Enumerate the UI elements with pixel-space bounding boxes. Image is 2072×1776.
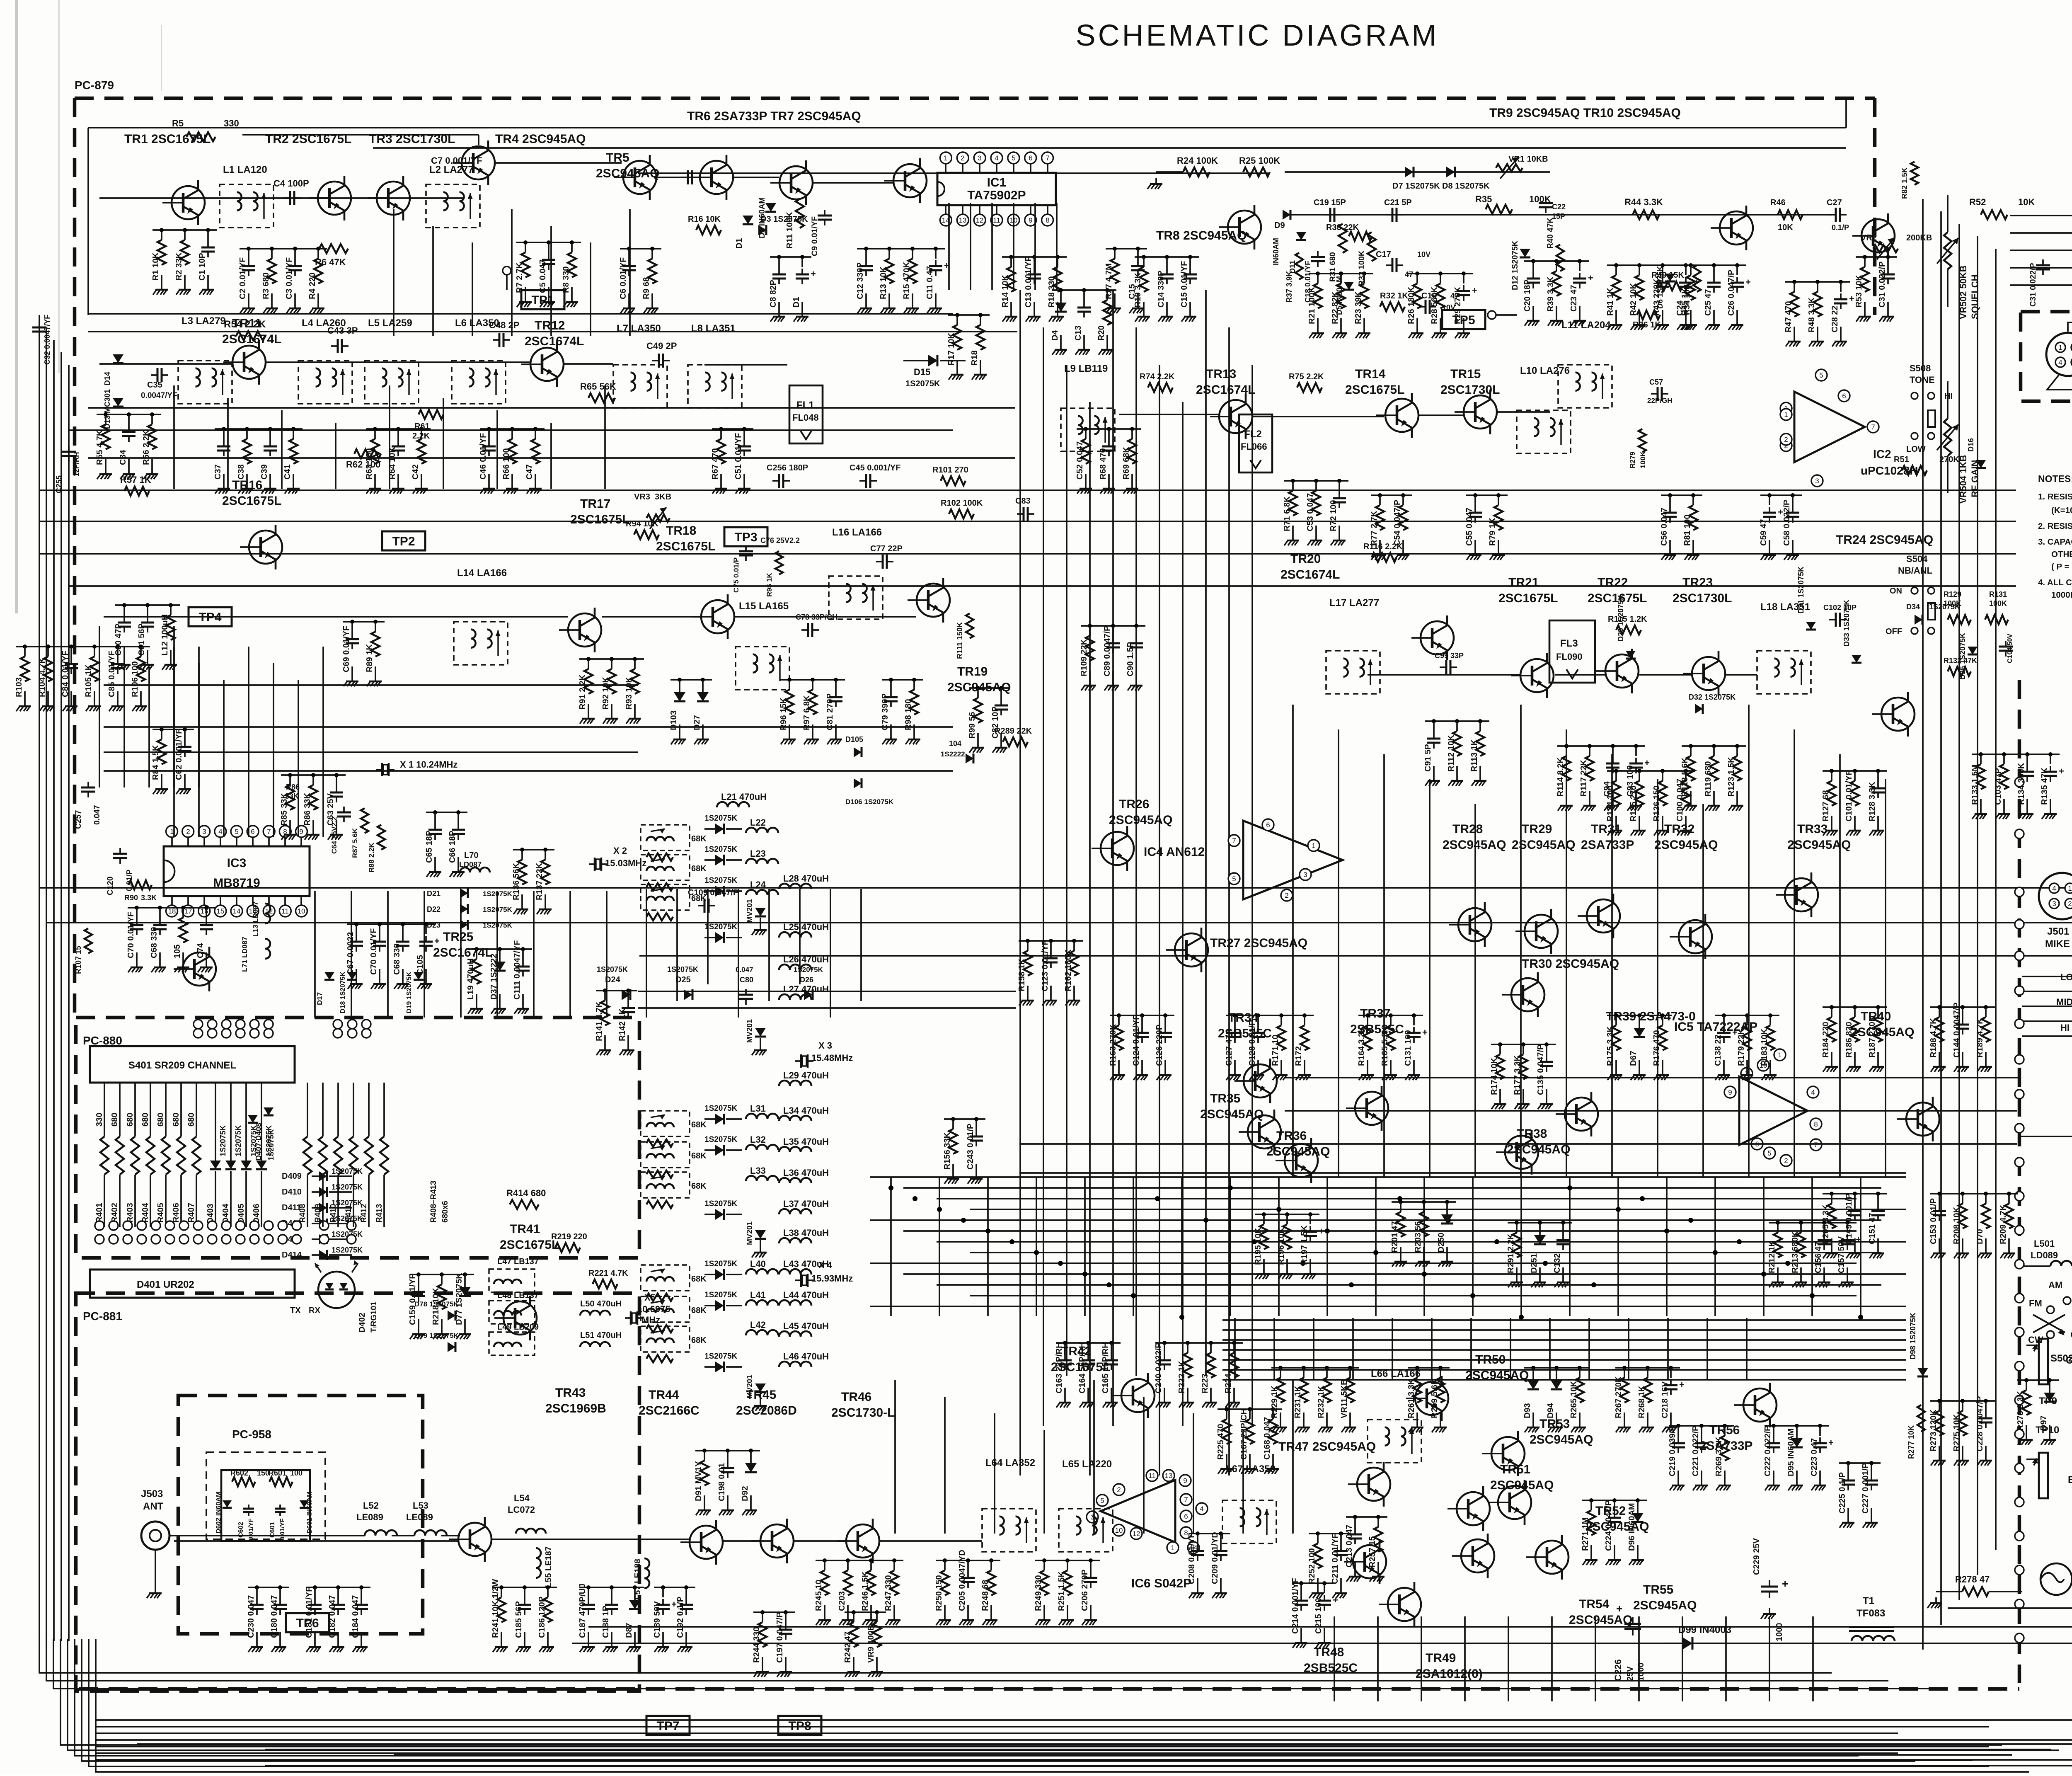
svg-text:+: + — [434, 936, 440, 946]
bias cluster R244 — [752, 1610, 795, 1677]
inductor L23 — [746, 848, 778, 864]
transistor TR42 — [1051, 1345, 1155, 1418]
svg-text:4: 4 — [218, 828, 222, 836]
bias cluster R26 — [1407, 271, 1477, 338]
svg-text:R414 680: R414 680 — [506, 1188, 546, 1198]
diode D4x-D6x IS2075K at y2775 — [704, 1135, 742, 1156]
svg-text:C74: C74 — [196, 943, 205, 958]
svg-text:TR26: TR26 — [1119, 797, 1149, 811]
svg-text:2SC1674L: 2SC1674L — [525, 334, 584, 348]
bias cluster R163 — [1109, 1013, 1174, 1080]
svg-text:L3 LA279: L3 LA279 — [182, 315, 226, 327]
svg-text:TR6 2SA733P TR7 2SC945AQ: TR6 2SA733P TR7 2SC945AQ — [687, 109, 861, 123]
channel resistor ladder R408-R413 — [298, 1083, 388, 1227]
svg-text:L46 470uH: L46 470uH — [783, 1351, 829, 1362]
svg-text:680: 680 — [110, 1113, 119, 1127]
svg-text:1S2075K: 1S2075K — [234, 1125, 242, 1156]
svg-text:L501: L501 — [2034, 1238, 2055, 1249]
svg-text:L41: L41 — [750, 1290, 766, 1300]
capacitor C7 0.001/YF — [431, 155, 699, 184]
coil L11 LA204 — [1558, 320, 1612, 408]
svg-text:D14: D14 — [103, 372, 111, 385]
svg-text:4: 4 — [2052, 884, 2056, 892]
svg-text:C27: C27 — [1827, 198, 1842, 207]
svg-text:TR43: TR43 — [555, 1386, 586, 1400]
svg-text:C17: C17 — [1376, 250, 1391, 259]
bias cluster R85 — [280, 773, 346, 840]
svg-text:R278 47: R278 47 — [1955, 1574, 1990, 1585]
svg-text:+: + — [1616, 1602, 1622, 1615]
svg-text:R42 10K: R42 10K — [1629, 283, 1638, 316]
svg-text:C189 50V: C189 50V — [653, 1601, 662, 1638]
control feed wires — [2022, 966, 2072, 1036]
C32 0.0047/YF — [32, 315, 51, 365]
svg-text:D9: D9 — [1274, 221, 1285, 230]
svg-text:R137 22K: R137 22K — [535, 863, 544, 900]
svg-text:TR49: TR49 — [1426, 1651, 1456, 1665]
VR3 3KB pot — [634, 492, 671, 529]
svg-text:C18 0.01/YF: C18 0.01/YF — [1304, 261, 1312, 303]
svg-text:C228 0.0047/P: C228 0.0047/P — [1975, 1396, 1985, 1451]
diode D9 D11 — [1272, 210, 1306, 274]
svg-text:R252 100: R252 100 — [1307, 1548, 1317, 1584]
transistor TR29 — [1512, 822, 1575, 954]
svg-text:1S2075K: 1S2075K — [704, 1104, 738, 1113]
svg-text:C180 0.047: C180 0.047 — [270, 1595, 279, 1638]
inductor L31 — [746, 1103, 778, 1119]
svg-text:5: 5 — [235, 828, 238, 836]
coil L41 LB209 slug box — [641, 1296, 707, 1322]
svg-text:SQUELCH: SQUELCH — [1970, 274, 1980, 319]
svg-text:C229 25V: C229 25V — [1752, 1538, 1761, 1575]
bias cluster R133 — [1970, 752, 2064, 819]
svg-text:D5 IN60AM: D5 IN60AM — [1335, 276, 1343, 315]
svg-text:R245 10: R245 10 — [814, 1580, 823, 1611]
svg-text:C226: C226 — [1613, 1659, 1623, 1681]
svg-text:D94: D94 — [1546, 1403, 1555, 1418]
mike connector J501 — [2039, 873, 2072, 950]
R289 22K — [995, 727, 1032, 746]
mid band rails — [1019, 1078, 2018, 1173]
svg-text:C188 1P: C188 1P — [601, 1606, 610, 1638]
svg-text:L23: L23 — [750, 848, 766, 859]
C76 C75 parts — [732, 536, 800, 597]
svg-text:R15 470K: R15 470K — [902, 262, 911, 299]
transistor TR17 — [559, 497, 629, 652]
R408x6 label — [429, 1181, 450, 1223]
R82 1.5K — [1900, 162, 1918, 199]
svg-text:L40: L40 — [750, 1259, 766, 1269]
svg-text:R3 680: R3 680 — [261, 273, 271, 300]
op-amp IC5 TA7222AP — [1674, 1020, 1822, 1166]
transistor TR35 — [1200, 1092, 1281, 1154]
svg-text:R2 33K: R2 33K — [174, 252, 184, 281]
svg-text:2SC945AQ: 2SC945AQ — [1569, 1613, 1632, 1627]
svg-text:L37 470uH: L37 470uH — [783, 1199, 829, 1209]
transistor TR36 — [1266, 1129, 1330, 1183]
microphone assembly dashed box — [2021, 312, 2072, 401]
diode D6 R36 — [1633, 266, 1675, 330]
capacitor C17 47 10V — [1376, 250, 1431, 279]
svg-text:3: 3 — [202, 828, 206, 836]
bias cluster C214 — [1291, 1578, 1338, 1648]
svg-text:R71 6.8K: R71 6.8K — [1283, 496, 1292, 531]
svg-text:C126 220P: C126 220P — [1155, 1025, 1164, 1066]
PC-880 bottom edge connector pads — [95, 1221, 356, 1244]
coil L4 LA260 — [298, 317, 352, 404]
mode switch S502-1 — [2028, 1280, 2072, 1364]
svg-text:+: + — [1745, 277, 1751, 287]
svg-text:R222 1K: R222 1K — [1177, 1361, 1186, 1393]
svg-text:D15: D15 — [914, 367, 930, 377]
svg-text:C81 270P: C81 270P — [825, 693, 835, 730]
svg-text:11: 11 — [281, 907, 289, 915]
svg-text:TR18: TR18 — [666, 524, 696, 538]
svg-text:C144 0.0047/P: C144 0.0047/P — [1952, 1003, 1961, 1058]
svg-text:R134 390K: R134 390K — [2017, 763, 2026, 805]
bias cluster R17 — [947, 313, 990, 380]
cross page horizontal bus y2305 — [639, 955, 2072, 957]
svg-text:D13 MC301: D13 MC301 — [103, 389, 111, 429]
svg-text:R158 1K: R158 1K — [1017, 959, 1026, 991]
svg-text:R55 4.7K: R55 4.7K — [95, 430, 104, 465]
svg-text:2SC945AQ: 2SC945AQ — [1530, 1433, 1593, 1446]
svg-text:R18 330: R18 330 — [1047, 276, 1056, 308]
svg-text:L8 LA351: L8 LA351 — [691, 323, 736, 334]
C120 0.01/P — [106, 848, 157, 902]
svg-text:7: 7 — [1232, 837, 1236, 845]
bias cluster R252 — [1307, 1531, 1350, 1598]
svg-text:S502 — 1: S502 — 1 — [2050, 1353, 2072, 1364]
inductor L33 — [746, 1165, 778, 1181]
svg-text:NOTES:: NOTES: — [2038, 473, 2072, 484]
svg-text:PC-881: PC-881 — [83, 1310, 122, 1323]
svg-text:TR55: TR55 — [1643, 1583, 1673, 1597]
svg-text:C222 0.022/P: C222 0.022/P — [1763, 1426, 1772, 1476]
svg-text:R135 47K: R135 47K — [2040, 767, 2049, 805]
diode matrix D401 UR202 — [90, 1270, 295, 1298]
svg-text:C224 0.047/P: C224 0.047/P — [1604, 1500, 1613, 1551]
svg-text:15: 15 — [217, 907, 225, 915]
R102 100K — [941, 499, 983, 519]
bias cluster C37 — [213, 427, 303, 494]
wire TX row signal path — [174, 1539, 982, 1541]
svg-text:TR41: TR41 — [510, 1222, 540, 1236]
svg-text:D97: D97 — [2039, 1415, 2048, 1431]
svg-text:R224: R224 — [1224, 1373, 1233, 1393]
PC-958 inner dashed box — [206, 1452, 325, 1539]
bias cluster R249 — [1034, 1558, 1100, 1625]
svg-text:R47 470: R47 470 — [1784, 301, 1793, 332]
svg-text:FL066: FL066 — [1241, 441, 1267, 452]
op-amp IC1 TA75902P — [937, 152, 1056, 226]
svg-text:1: 1 — [944, 154, 947, 162]
svg-text:13: 13 — [959, 216, 967, 224]
svg-text:R249 330: R249 330 — [1034, 1575, 1043, 1611]
coil L65 LA220 — [1059, 1459, 1113, 1552]
svg-text:OTHERWISE NOTED.: OTHERWISE NOTED. — [2051, 550, 2072, 559]
svg-text:C184 0.047: C184 0.047 — [351, 1595, 360, 1638]
svg-text:6: 6 — [1184, 1512, 1188, 1520]
svg-text:C28 22: C28 22 — [1830, 306, 1840, 333]
channel diode column D403-D406 — [206, 1083, 273, 1227]
svg-text:TR25: TR25 — [443, 930, 473, 944]
svg-text:EXT SP: EXT SP — [2068, 1474, 2072, 1485]
bias cluster R261 — [1407, 1366, 1450, 1432]
R279 100K — [1629, 429, 1647, 468]
wire row TR9 signal — [1285, 172, 1832, 215]
bias cluster R201 — [1390, 1200, 1456, 1267]
wire RF row1 signal path — [99, 163, 893, 198]
svg-text:2SA733P: 2SA733P — [1581, 838, 1634, 852]
bias cluster R291 — [1506, 1221, 1572, 1287]
resistor R32 1K C16 — [1380, 291, 1459, 314]
bottom bus band — [137, 1744, 2072, 1766]
coil L31 LB209 slug box — [641, 1111, 707, 1136]
svg-text:10V: 10V — [1417, 250, 1431, 259]
resistor R35 100K — [1475, 194, 1551, 214]
svg-text:R103: R103 — [15, 677, 24, 697]
bias cluster C70 — [126, 906, 215, 972]
svg-text:1: 1 — [1312, 842, 1315, 850]
bias cluster R55 — [95, 412, 161, 479]
svg-text:D99 IN4003: D99 IN4003 — [1678, 1624, 1731, 1635]
inductor L43 — [779, 1259, 829, 1274]
svg-text:C6 0.01/YF: C6 0.01/YF — [619, 257, 628, 299]
svg-text:+: + — [1588, 273, 1593, 283]
svg-text:C214 0.001/YF: C214 0.001/YF — [1291, 1578, 1300, 1634]
diode D407 D408 — [248, 1107, 275, 1161]
test point TP2 — [382, 531, 425, 550]
C77 22P — [870, 544, 903, 569]
svg-text:L5 LA259: L5 LA259 — [368, 317, 412, 329]
svg-text:MIKE: MIKE — [2045, 938, 2070, 950]
test point TP5 — [1442, 310, 1485, 329]
svg-text:L14 LA166: L14 LA166 — [457, 567, 507, 579]
svg-text:+: + — [1828, 1437, 1834, 1448]
svg-text:C159 0.01/YF: C159 0.01/YF — [408, 1274, 417, 1325]
svg-text:R114 8.2K: R114 8.2K — [1556, 757, 1565, 797]
svg-text:R79 1K: R79 1K — [1488, 518, 1497, 546]
bias cluster C65 — [425, 810, 467, 877]
inductor L27 — [779, 984, 829, 1000]
bias cluster C240 — [1154, 1341, 1243, 1408]
svg-text:D96 IN60AM: D96 IN60AM — [1627, 1503, 1636, 1551]
svg-text:R128 3.3K: R128 3.3K — [1868, 782, 1877, 821]
varactor diode MV201 y2480 — [746, 1019, 767, 1055]
R101 270 — [932, 465, 968, 485]
resistor R14x under L24 — [646, 913, 673, 921]
svg-text:TP7: TP7 — [656, 1719, 679, 1733]
bias cluster C46 — [479, 427, 545, 494]
capacitor C19 15P C21 5P — [1314, 198, 1412, 241]
svg-text:R46: R46 — [1770, 198, 1786, 207]
diode D4x-D6x IS2075K at y2700 — [704, 1104, 742, 1124]
svg-text:4: 4 — [1200, 1505, 1203, 1513]
svg-text:L64 LA352: L64 LA352 — [985, 1457, 1035, 1468]
svg-text:2SC1675L: 2SC1675L — [1498, 591, 1558, 605]
svg-text:D4: D4 — [1051, 330, 1060, 341]
bias cluster C127 — [1225, 1013, 1314, 1080]
svg-text:C5 0.047: C5 0.047 — [538, 259, 547, 293]
svg-text:IC4 AN612: IC4 AN612 — [1144, 845, 1205, 859]
svg-text:R41 1K: R41 1K — [1606, 288, 1615, 316]
svg-text:C3 0.01/YF: C3 0.01/YF — [285, 257, 294, 299]
svg-text:2SC945AQ: 2SC945AQ — [1109, 813, 1172, 827]
resistor R46 10K — [1770, 198, 1803, 232]
svg-text:TR30 2SC945AQ: TR30 2SC945AQ — [1522, 957, 1619, 971]
svg-text:C26 0.047/P: C26 0.047/P — [1727, 270, 1736, 316]
bus rail y357 — [373, 147, 1846, 149]
svg-text:C25 47: C25 47 — [1704, 289, 1713, 316]
svg-text:C165 15P/RH: C165 15P/RH — [1101, 1342, 1110, 1393]
mic connector plug — [2046, 333, 2072, 376]
svg-text:C185 56P: C185 56P — [514, 1601, 523, 1638]
svg-text:D70: D70 — [1975, 1229, 1985, 1244]
svg-text:TR22: TR22 — [1598, 576, 1628, 589]
bias cluster C219 — [1668, 1424, 1734, 1490]
row3 bottom rail — [104, 752, 953, 771]
PC-880 board outline — [76, 1018, 639, 1258]
transistor TR34 — [1218, 1011, 1277, 1103]
filter cap C226 1000 25V — [1613, 1602, 1646, 1681]
svg-text:VR2: VR2 — [1861, 233, 1877, 242]
svg-text:R251 1.5K: R251 1.5K — [1057, 1571, 1066, 1611]
bias cluster C6 — [619, 247, 661, 313]
svg-text:TR17: TR17 — [580, 497, 610, 511]
resistor R44 3.3K — [1624, 197, 1663, 219]
svg-text:C206 270P: C206 270P — [1080, 1570, 1089, 1611]
transistor TR56 — [1699, 1383, 1777, 1453]
svg-text:C151 47: C151 47 — [1868, 1213, 1877, 1244]
D24 D25 diodes — [597, 965, 753, 1005]
svg-text:1S2075K: 1S2075K — [704, 1260, 738, 1268]
antenna lead — [169, 1535, 460, 1536]
svg-text:C66 18P: C66 18P — [448, 831, 457, 863]
svg-text:TR37: TR37 — [1360, 1007, 1390, 1020]
svg-text:R195 10K: R195 10K — [1254, 1227, 1263, 1265]
svg-text:L11 LA204: L11 LA204 — [1561, 320, 1611, 331]
svg-text:C230 0.047: C230 0.047 — [247, 1595, 256, 1638]
transistor TR13 — [1196, 367, 1255, 439]
svg-text:R232 1K: R232 1K — [1317, 1386, 1326, 1418]
svg-text:R32 1K: R32 1K — [1380, 291, 1408, 300]
cross page horizontal bus y1180 — [39, 489, 2016, 491]
svg-text:1S2075K: 1S2075K — [704, 923, 738, 931]
svg-text:C15 0.01/YF: C15 0.01/YF — [1180, 261, 1189, 308]
svg-text:R242 47: R242 47 — [843, 1631, 852, 1663]
svg-text:LE089: LE089 — [406, 1512, 433, 1522]
svg-text:L22: L22 — [750, 817, 766, 828]
svg-text:+: + — [1644, 758, 1650, 768]
PC-879 label — [75, 79, 114, 92]
svg-text:R186 820: R186 820 — [1844, 1022, 1854, 1058]
svg-text:4: 4 — [995, 154, 998, 162]
resistor R49 15K — [1651, 271, 1684, 291]
svg-text:R401: R401 — [95, 1203, 104, 1223]
C45 0.001/YF — [850, 463, 900, 488]
svg-text:1S2075K: 1S2075K — [704, 845, 738, 854]
svg-text:R261 3.3K: R261 3.3K — [1407, 1379, 1416, 1418]
inductor L35 — [779, 1136, 829, 1152]
bias cluster R267 — [1614, 1366, 1685, 1432]
svg-text:R44 3.3K: R44 3.3K — [1624, 197, 1663, 207]
svg-text:R62 100: R62 100 — [346, 459, 380, 470]
bias cluster R245 — [814, 1558, 903, 1625]
inductor L32 — [746, 1134, 778, 1150]
filter FL1 FL048 — [789, 385, 823, 443]
PC-958 label — [232, 1428, 271, 1441]
coil L16 LA166 — [829, 527, 883, 619]
svg-text:15P: 15P — [1552, 212, 1565, 220]
resistor R16 10K D3 — [688, 215, 808, 235]
svg-text:R184 220: R184 220 — [1821, 1022, 1830, 1058]
transistor TR8 — [1156, 205, 1261, 250]
svg-text:C48 2P: C48 2P — [489, 320, 519, 330]
capacitor C48 2P — [489, 320, 519, 347]
svg-text:+: + — [1849, 293, 1854, 304]
resistor 104 1S2222 — [941, 739, 973, 763]
svg-text:R601: R601 — [269, 1469, 286, 1477]
svg-text:L25 470uH: L25 470uH — [783, 922, 829, 932]
bias cluster C79 — [881, 678, 923, 744]
svg-text:C192 0.1/P: C192 0.1/P — [676, 1597, 685, 1638]
svg-text:R408: R408 — [298, 1204, 307, 1223]
bias cluster C60 — [114, 603, 180, 670]
svg-text:TR19: TR19 — [957, 665, 988, 678]
svg-text:R123 1.5K: R123 1.5K — [1727, 757, 1736, 797]
svg-text:150: 150 — [257, 1469, 269, 1477]
svg-text:R33 100K: R33 100K — [1358, 250, 1366, 286]
bias cluster R156 — [943, 1117, 985, 1184]
svg-text:C91 5P: C91 5P — [1423, 744, 1433, 772]
outer border corner 2 — [572, 232, 2072, 1643]
tone switch S508 — [1906, 363, 1953, 454]
svg-text:R229 1K: R229 1K — [1270, 1386, 1279, 1418]
C57 22P/CH — [1647, 378, 1672, 405]
svg-text:J503: J503 — [141, 1488, 163, 1500]
bias cluster R127 — [1821, 769, 1887, 836]
svg-text:R189 4.7K: R189 4.7K — [1975, 1018, 1985, 1058]
svg-text:+: + — [1333, 1595, 1338, 1605]
svg-text:C243 0.01/P: C243 0.01/P — [966, 1124, 975, 1170]
varactor diode MV201 y3338 — [746, 1375, 767, 1411]
svg-text:1S2075K: 1S2075K — [704, 876, 738, 885]
svg-text:R49 15K: R49 15K — [1651, 271, 1684, 280]
svg-text:10V: 10V — [1442, 303, 1455, 312]
PC-879 board outline top edge — [75, 97, 1875, 100]
scan streak left — [15, 0, 162, 613]
svg-text:7: 7 — [1871, 423, 1875, 431]
transistor TR15 — [1440, 367, 1500, 434]
resistor R5 330 — [172, 118, 239, 141]
svg-text:MHz: MHz — [641, 1315, 660, 1325]
bias cluster C67 — [346, 922, 440, 989]
svg-text:R34 10K: R34 10K — [1683, 284, 1692, 315]
pot VR2 200KB — [1861, 233, 1932, 259]
coil L7 LA350 — [613, 323, 667, 408]
svg-text:D401 UR202: D401 UR202 — [137, 1279, 194, 1290]
svg-text:0.01/YF: 0.01/YF — [279, 1518, 286, 1540]
svg-text:L21 470uH: L21 470uH — [721, 792, 767, 802]
svg-text:C55 0.047: C55 0.047 — [1465, 508, 1474, 546]
svg-text:TR48: TR48 — [1314, 1645, 1344, 1659]
svg-text:TR15: TR15 — [1450, 367, 1481, 381]
svg-text:2SC945AQ: 2SC945AQ — [1507, 1143, 1570, 1156]
svg-text:L52: L52 — [363, 1500, 379, 1511]
svg-text:C128 0.01/P: C128 0.01/P — [1248, 1020, 1257, 1066]
coil L66 LA166 — [1368, 1368, 1421, 1463]
